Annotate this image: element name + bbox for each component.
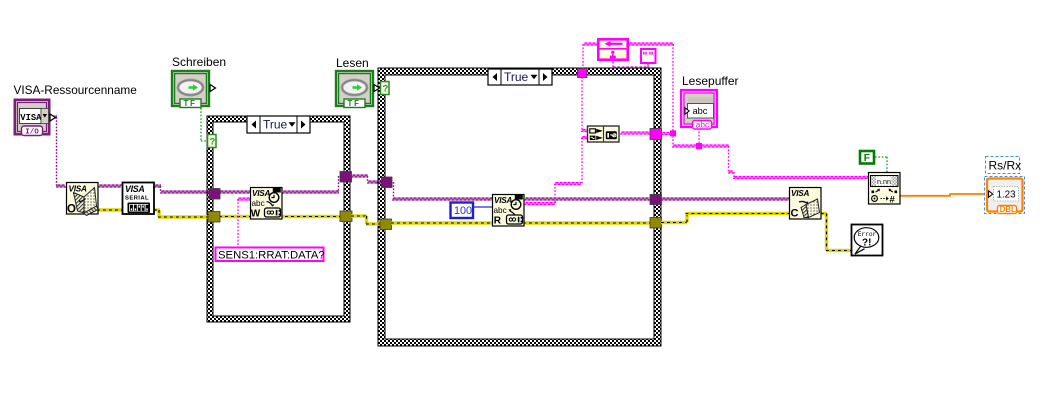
wire VISA resource: case2 to VISA Close	[661, 198, 790, 200]
wire string bottom run to converter	[672, 145, 869, 179]
wire DBL converter to Rs/Rx indicator	[900, 194, 988, 196]
junction pink at (673,133)	[670, 130, 676, 136]
wire string: vertical bus to feedback input	[628, 43, 674, 146]
tunnel purple case2 right	[650, 195, 662, 205]
wire VISA resource: control to VISA Open	[50, 116, 66, 187]
svg-text:Rs/Rx: Rs/Rx	[989, 159, 1022, 173]
svg-text:abc: abc	[494, 206, 507, 215]
Rs/Rx numeric indicator (selected)	[985, 157, 1025, 215]
svg-text:VISA: VISA	[125, 184, 145, 194]
wire error inside case2 through VISA Read	[391, 221, 651, 224]
string constant SENS1:RRAT:DATA?	[216, 248, 325, 262]
svg-text:DBL: DBL	[1000, 205, 1016, 214]
Lesepuffer string indicator	[681, 90, 717, 130]
wire error between cases	[351, 216, 381, 224]
case structure 2 selector label True	[488, 69, 552, 85]
tunnel olive case2 left	[380, 219, 392, 230]
Decimal String To Number function	[869, 173, 901, 206]
wire VISA resource: VISA Read to case2 right tunnel	[524, 198, 651, 200]
tunnel purple case1 right	[340, 172, 352, 183]
tunnel purple case2 left	[382, 177, 393, 188]
wire boolean Lesen to case2 selector	[374, 87, 382, 89]
svg-text:abc: abc	[693, 106, 708, 116]
svg-text:R: R	[494, 215, 502, 226]
numeric constant 100	[451, 203, 474, 219]
svg-text:SERIAL: SERIAL	[125, 196, 149, 202]
wire string: VISA Read output staircase to concatenate input2	[524, 137, 589, 205]
svg-text:True: True	[263, 118, 288, 132]
boolean constant F	[860, 151, 874, 164]
wire boolean Schreiben to case1 selector	[201, 108, 208, 141]
wire string: Lesepuffer drop	[698, 128, 700, 145]
tunnel pink case2 right	[650, 129, 662, 140]
svg-text:TF: TF	[184, 99, 197, 108]
wire VISA resource between cases	[351, 175, 382, 183]
svg-text:?: ?	[210, 137, 216, 148]
wire error inside case1 through VISA Write	[219, 215, 341, 218]
VISA Configure Serial Port function	[123, 183, 155, 215]
tunnel purple case1 left	[209, 189, 220, 200]
wire error: VISA Close to error handler	[821, 214, 852, 251]
svg-text:100: 100	[454, 205, 472, 217]
case structure 2 (Lesen case)	[378, 68, 661, 346]
svg-text:VISA: VISA	[252, 189, 270, 198]
wire error: VISA Open to VISA Serial	[97, 208, 123, 211]
svg-text:VISA: VISA	[20, 113, 42, 123]
VISA Read function	[493, 195, 525, 227]
wire string: concatenate output to right tunnel	[620, 132, 651, 134]
label Lesen	[336, 56, 369, 70]
wire boolean F to converter	[875, 157, 887, 172]
svg-text:VISA: VISA	[791, 189, 809, 198]
VISA Write function	[251, 188, 283, 220]
wire string constant to VISA Write	[237, 198, 251, 247]
svg-text:SENS1:RRAT:DATA?: SENS1:RRAT:DATA?	[218, 249, 325, 261]
Schreiben boolean control	[172, 71, 216, 108]
VISA Close function	[790, 188, 822, 220]
svg-text:#: #	[890, 195, 896, 206]
Lesen boolean control	[336, 71, 380, 108]
svg-text:1.23: 1.23	[997, 190, 1017, 201]
tunnel olive case1 right	[340, 211, 352, 222]
svg-text:VISA: VISA	[69, 185, 87, 194]
svg-text:abc: abc	[252, 199, 265, 208]
empty string constant	[641, 49, 656, 63]
svg-text:C: C	[791, 208, 799, 220]
svg-text:Lesepuffer: Lesepuffer	[682, 74, 739, 88]
VISA Open function	[67, 183, 99, 216]
wire string: tunnel to vertical bus x673	[661, 133, 674, 135]
wire byte count 100 to VISA Read	[473, 206, 493, 208]
svg-text:VISA-Ressourcenname: VISA-Ressourcenname	[14, 83, 138, 97]
Concatenate Strings function	[588, 126, 620, 142]
label Lesepuffer	[682, 74, 739, 88]
junction pink at (699,146)	[696, 143, 702, 149]
tunnel pink case2 top	[578, 69, 588, 78]
wire VISA resource: VISA Open to VISA Serial	[98, 185, 122, 187]
svg-text:Schreiben: Schreiben	[172, 55, 226, 69]
label Schreiben	[172, 55, 226, 69]
case structure 1 (Schreiben case)	[207, 116, 350, 322]
svg-text:VISA: VISA	[494, 196, 512, 205]
wire VISA resource: VISA Serial to case 1 tunnel	[154, 185, 209, 193]
svg-text:F: F	[864, 153, 870, 164]
svg-text:n.nn: n.nn	[877, 177, 891, 186]
svg-text:I/O: I/O	[25, 129, 39, 137]
svg-text:True: True	[504, 70, 529, 84]
case1 selector terminal ?	[208, 135, 217, 148]
svg-text:O: O	[67, 204, 76, 216]
svg-text:Lesen: Lesen	[336, 56, 369, 70]
VISA-Ressourcenname control	[15, 100, 56, 137]
wire VISA resource: VISA Write to case1 right tunnel	[282, 176, 339, 193]
svg-text:abc: abc	[696, 120, 709, 130]
wire VISA resource inside case2 to VISA Read	[392, 182, 493, 200]
svg-text:?: ?	[383, 84, 389, 95]
svg-text:W: W	[251, 208, 261, 219]
tunnel olive case1 left	[208, 212, 220, 223]
label VISA-Ressourcenname	[14, 83, 138, 97]
Simple Error Handler function	[852, 225, 883, 256]
wire string: feedback initializer to empty string constant	[613, 61, 648, 68]
case structure 1 selector label True	[247, 116, 310, 133]
svg-text:TF: TF	[348, 99, 361, 108]
wire error: VISA Serial to case1 tunnel	[154, 210, 209, 217]
case2 selector terminal ?	[381, 82, 390, 95]
svg-text:?!: ?!	[862, 238, 871, 249]
feedback node	[597, 39, 629, 59]
wire VISA resource inside case 1 to VISA Write	[219, 191, 251, 193]
wire string: feedback node output down through top tunnel to concatenate input1	[581, 43, 598, 132]
wire error: case2 to VISA Close	[661, 214, 790, 223]
tunnel olive case2 right	[650, 218, 662, 229]
